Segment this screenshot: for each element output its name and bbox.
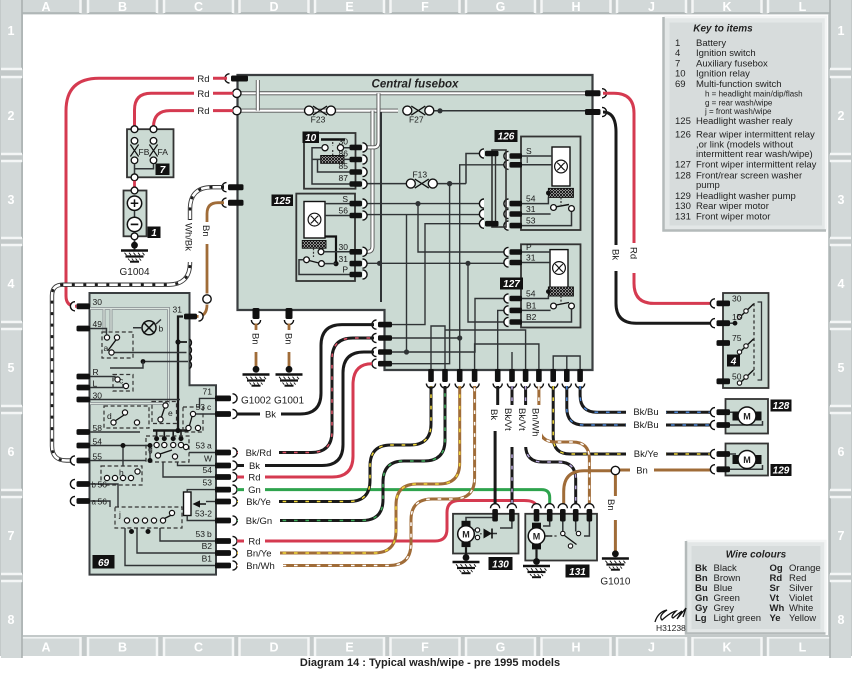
svg-text:j = front wash/wipe: j = front wash/wipe <box>704 107 772 116</box>
svg-text:J: J <box>648 0 655 14</box>
relay127 terminal B2 <box>510 319 523 325</box>
fusebox ext terminal W <box>378 349 392 355</box>
wire battery to ground <box>134 240 136 250</box>
relay10 terminal 30 <box>350 145 363 151</box>
wire Rd to ignition switch <box>603 93 712 303</box>
dashed box e <box>152 402 177 424</box>
label plate 129 <box>771 464 792 476</box>
wire lamp link <box>133 320 161 328</box>
switch69 terminal 55 <box>77 458 91 464</box>
svg-text:50: 50 <box>732 372 742 382</box>
svg-text:Rd: Rd <box>248 473 260 484</box>
switch69 terminal R <box>77 374 91 380</box>
svg-text:I: I <box>526 155 528 165</box>
svg-text:53: 53 <box>196 529 206 539</box>
ground G1010 <box>602 559 629 570</box>
svg-text:53-2: 53-2 <box>195 509 212 519</box>
junction W net <box>404 349 409 354</box>
svg-text:D: D <box>269 0 278 14</box>
wire Bk/Vt to motor 130 <box>511 386 514 505</box>
svg-text:S: S <box>342 194 348 204</box>
svg-text:31: 31 <box>339 254 349 264</box>
svg-text:F: F <box>421 641 429 655</box>
fusebox right terminal Bk out <box>585 109 601 115</box>
svg-text:Bn: Bn <box>636 466 648 477</box>
svg-text:56: 56 <box>339 206 349 216</box>
svg-text:4: 4 <box>730 356 737 367</box>
fusebox ext terminal 53c <box>378 322 392 328</box>
svg-text:Bk/Bu: Bk/Bu <box>633 407 658 418</box>
ignition terminal 75 <box>717 340 731 346</box>
junction 125S net <box>415 201 420 206</box>
internal connection wires <box>90 329 216 566</box>
svg-text:31: 31 <box>526 204 536 214</box>
arrow to resistor <box>199 503 206 505</box>
svg-text:J: J <box>648 641 655 655</box>
svg-text:3: 3 <box>838 193 845 207</box>
svg-text:Bk: Bk <box>610 249 621 260</box>
svg-text:7: 7 <box>838 529 845 543</box>
svg-text:K: K <box>722 641 731 655</box>
svg-text:86: 86 <box>339 149 349 159</box>
svg-text:b: b <box>92 481 97 490</box>
ignition terminal 50 <box>717 378 731 384</box>
svg-text:h = headlight main/dip/flash: h = headlight main/dip/flash <box>705 90 803 99</box>
svg-text:1: 1 <box>151 228 157 239</box>
motor131 terminals <box>534 509 540 522</box>
junction F13 out <box>447 181 452 186</box>
dashed box j <box>115 507 182 528</box>
fusebox right terminal Rd out <box>585 90 601 96</box>
relay 126 rear wiper intermittent relay <box>479 130 580 230</box>
svg-text:4: 4 <box>8 277 15 291</box>
relay125 terminal S <box>350 201 363 207</box>
dashed box a <box>102 332 133 358</box>
label plate 69 <box>93 555 115 569</box>
svg-text:b: b <box>159 324 164 334</box>
ignition switch contacts <box>753 303 755 377</box>
svg-text:a: a <box>92 498 97 507</box>
relay10 terminal 87 <box>350 181 363 187</box>
wire internal white bus Rd feed <box>236 91 586 95</box>
svg-text:Bn: Bn <box>605 499 616 511</box>
svg-text:125: 125 <box>274 196 291 207</box>
fusebox ground terminal G1002 <box>253 308 260 319</box>
svg-text:FB: FB <box>139 147 150 157</box>
svg-text:F: F <box>421 0 429 14</box>
svg-text:pump: pump <box>696 180 720 191</box>
wire Bn to switch 31 <box>197 203 224 317</box>
switch69 terminal b56 <box>77 481 91 487</box>
fuse FA <box>150 138 157 145</box>
relay125 terminal 31 <box>350 261 363 267</box>
wire Bn/Ye B2 to fusebox <box>237 386 460 553</box>
svg-text:intermittent rear wash/wipe): intermittent rear wash/wipe) <box>696 149 813 160</box>
motor130 terminals <box>492 509 498 522</box>
svg-text:7: 7 <box>160 165 166 176</box>
svg-text:G: G <box>496 641 506 655</box>
svg-text:A: A <box>41 641 50 655</box>
junction on 31 bus left <box>377 261 382 266</box>
svg-text:Bn: Bn <box>200 225 211 237</box>
svg-text:M: M <box>533 531 541 541</box>
svg-text:H: H <box>571 641 580 655</box>
ground G1001 <box>276 375 303 386</box>
svg-text:87: 87 <box>339 173 349 183</box>
link bus bar <box>492 150 506 227</box>
label Bk/Bu 2 <box>626 419 666 431</box>
dashed box g <box>146 436 189 462</box>
wire Bk130 net <box>498 310 508 372</box>
svg-text:69: 69 <box>675 79 686 90</box>
svg-text:130: 130 <box>492 559 509 570</box>
switch69 terminal 53c <box>215 411 231 417</box>
dashed box f <box>183 407 203 432</box>
svg-text:W: W <box>204 454 212 464</box>
junction 53a net <box>457 335 462 340</box>
svg-text:Front wiper intermittent relay: Front wiper intermittent relay <box>696 159 817 170</box>
svg-text:FA: FA <box>158 147 169 157</box>
wire 31 internal drop <box>178 317 183 431</box>
svg-text:54: 54 <box>526 289 536 299</box>
svg-text:Bn: Bn <box>283 333 294 345</box>
label plate 131 <box>566 565 590 578</box>
svg-text:B2: B2 <box>202 541 213 551</box>
svg-text:F13: F13 <box>412 170 427 180</box>
label Bn <box>201 222 213 244</box>
label Rd vertical <box>628 243 640 273</box>
svg-text:Bk: Bk <box>249 461 260 472</box>
svg-text:30: 30 <box>93 390 103 400</box>
relay127 terminal P <box>510 249 523 255</box>
wire Bn to G1001 <box>288 324 291 368</box>
switch69 terminal 53a <box>215 450 231 456</box>
svg-text:H: H <box>571 0 580 14</box>
fusebox bottom terminals <box>426 369 584 388</box>
switch69 terminal 54R <box>215 474 231 480</box>
svg-text:128: 128 <box>773 401 790 412</box>
svg-text:6: 6 <box>838 445 845 459</box>
wire Rd54 net <box>392 184 450 364</box>
ignition switch 4 <box>723 293 769 388</box>
svg-text:K: K <box>722 0 731 14</box>
label plate 7 <box>156 164 170 176</box>
svg-text:Bn/Wh: Bn/Wh <box>246 561 275 572</box>
svg-text:E: E <box>345 641 353 655</box>
svg-text:M: M <box>462 529 470 539</box>
signature mark <box>655 608 686 633</box>
switch69 terminal 54L <box>77 443 91 449</box>
svg-text:Bk/Gn: Bk/Gn <box>246 516 272 527</box>
ground G1004 <box>121 251 148 262</box>
wire thick dark F27 drop <box>380 112 382 302</box>
svg-text:53: 53 <box>196 441 206 451</box>
switch69 terminal 53-2 <box>215 518 231 524</box>
label Rd 3 <box>194 105 213 116</box>
wire lamp feed lines <box>114 353 188 362</box>
svg-text:31: 31 <box>173 305 183 315</box>
wire white branch to relay10-30 <box>366 93 379 147</box>
svg-text:D: D <box>269 641 278 655</box>
svg-text:L: L <box>93 378 98 388</box>
switch69 terminal 49 <box>77 326 91 332</box>
label plate 1 <box>148 227 161 239</box>
svg-text:Bk/Vt: Bk/Vt <box>502 408 513 431</box>
wire 53c net <box>392 224 483 325</box>
svg-text:Rd: Rd <box>628 247 639 259</box>
svg-text:30: 30 <box>339 242 349 252</box>
svg-text:Headlight washer realy: Headlight washer realy <box>696 116 793 127</box>
svg-text:G1001: G1001 <box>274 396 304 407</box>
dashed box c <box>113 375 133 392</box>
wire Bk/Ye wash to fusebox <box>237 386 431 502</box>
svg-text:Key to items: Key to items <box>693 24 753 35</box>
fusebox ground terminal G1001 <box>286 308 293 319</box>
wire Bk/Vt to motor 131 <box>526 386 576 505</box>
relay10 terminal 85 <box>350 169 363 175</box>
svg-text:Bn/Ye: Bn/Ye <box>246 549 271 560</box>
svg-text:71: 71 <box>203 386 213 396</box>
svg-text:5: 5 <box>8 361 15 375</box>
node on box7 top FA <box>150 126 157 133</box>
fusebox left terminal Wh/Bk <box>228 184 244 190</box>
svg-text:B1: B1 <box>202 554 213 564</box>
fusebox ext terminal 53a <box>378 335 392 341</box>
fuse F27 <box>427 110 587 112</box>
wire Bn/Wh to motor 131 <box>539 386 590 505</box>
fusebox top-left terminal (Rd battery feed) <box>231 76 248 82</box>
wire Bk/Gn 53-2 to fusebox <box>237 386 445 521</box>
rear wiper motor 130 <box>453 514 519 554</box>
svg-text:30: 30 <box>732 294 742 304</box>
svg-text:Ye: Ye <box>770 613 781 624</box>
svg-text:Wire colours: Wire colours <box>726 550 787 561</box>
svg-text:Bk/Ye: Bk/Ye <box>634 449 658 460</box>
relay125 terminal 56 <box>350 213 363 219</box>
fusebox ext terminal 54 <box>378 361 392 367</box>
battery 1 <box>124 191 147 237</box>
svg-text:Bn/Wh: Bn/Wh <box>530 408 541 437</box>
svg-text:R: R <box>93 367 99 377</box>
svg-text:131: 131 <box>675 211 691 222</box>
label Bk vertical <box>610 245 622 271</box>
fuse F23 <box>305 106 336 115</box>
svg-text:58: 58 <box>93 423 103 433</box>
switch69 terminal 53 <box>215 487 231 493</box>
svg-text:5: 5 <box>838 361 845 375</box>
relay10 terminal 86 <box>350 157 363 163</box>
fusebox edge node Rd3 <box>233 106 241 114</box>
svg-text:G1004: G1004 <box>119 267 149 278</box>
solenoid scallops on edge <box>190 339 192 369</box>
label plate 130 <box>489 557 513 570</box>
wire 53a net <box>392 165 508 338</box>
svg-text:1: 1 <box>8 24 15 38</box>
dashed box h <box>101 466 142 485</box>
wire 31 bus <box>364 263 508 322</box>
switch 69 body <box>90 293 217 575</box>
switch69 terminal 30a <box>77 303 91 309</box>
svg-text:31: 31 <box>526 253 536 263</box>
svg-text:Rd: Rd <box>197 106 209 117</box>
node Bn junction <box>611 466 619 474</box>
wire Gn 53 to wiper motor 131 <box>237 490 550 505</box>
diode <box>484 529 493 539</box>
svg-text:127: 127 <box>503 279 520 290</box>
wire Bk/Ye to 129 <box>553 386 712 454</box>
wire Bn to 129 <box>615 469 712 472</box>
svg-text:Bk/Rd: Bk/Rd <box>246 448 272 459</box>
svg-text:131: 131 <box>569 567 586 578</box>
internal mesh wires <box>364 165 581 372</box>
wire contact feed bar <box>153 429 189 431</box>
relay126 terminal 53 <box>510 223 523 229</box>
switch69 terminal wash <box>215 499 231 505</box>
node Bn junction circle <box>203 295 211 303</box>
svg-text:P: P <box>342 265 348 275</box>
fuse F13 <box>364 154 484 184</box>
wire 127P net <box>418 204 508 252</box>
fusebox edge node Rd2 <box>233 89 241 97</box>
wire white from top terminal to F23 feed <box>256 80 260 111</box>
label Rd 2 <box>194 88 213 99</box>
relay127 terminal 31 <box>510 260 523 266</box>
front wiper motor 131 <box>525 514 597 561</box>
svg-text:Bk/Vt: Bk/Vt <box>516 408 527 431</box>
relay126 terminal 31 <box>510 211 523 217</box>
svg-text:Wh/Bk: Wh/Bk <box>183 223 194 251</box>
wire Bk/Bu upper <box>580 386 712 412</box>
svg-text:4: 4 <box>838 277 845 291</box>
svg-text:e: e <box>168 408 173 418</box>
svg-text:53: 53 <box>526 216 536 226</box>
contact row g <box>157 431 181 438</box>
ignition terminal 15 <box>717 320 731 326</box>
svg-text:Diagram 14 : Typical wash/wipe: Diagram 14 : Typical wash/wipe - pre 199… <box>300 657 560 669</box>
svg-text:C: C <box>194 0 203 14</box>
svg-text:125: 125 <box>675 116 691 127</box>
fusebox left terminal Bn <box>228 200 244 206</box>
label plate 128 <box>771 400 792 412</box>
label plate 4 <box>727 355 740 367</box>
svg-text:B: B <box>118 641 127 655</box>
svg-text:69: 69 <box>98 558 110 569</box>
resistor <box>184 492 192 516</box>
node on box7 bottom <box>131 174 138 181</box>
svg-text:56: 56 <box>98 480 108 490</box>
wire white to F23 <box>236 109 398 113</box>
wire bottom terminal risers <box>431 326 580 372</box>
switch69 terminal 53b <box>215 538 231 544</box>
svg-text:L: L <box>799 0 807 14</box>
svg-text:a: a <box>207 441 212 451</box>
svg-text:56: 56 <box>98 497 108 507</box>
svg-text:54: 54 <box>93 436 103 446</box>
lamp b <box>142 321 156 335</box>
relay 127 front wiper intermittent relay <box>500 242 581 328</box>
wire Bn/Wh B1 to fusebox <box>237 386 475 566</box>
svg-text:Bk/Bu: Bk/Bu <box>633 420 658 431</box>
wire Rd battery feed 3 <box>154 111 234 127</box>
relay 10 ignition relay <box>303 132 368 189</box>
svg-text:127: 127 <box>675 159 691 170</box>
label Rd 1 <box>194 73 213 84</box>
svg-text:B1: B1 <box>526 300 537 310</box>
svg-text:75: 75 <box>732 333 742 343</box>
label Bk vertical <box>489 405 501 431</box>
motor130 ground <box>465 547 467 556</box>
svg-text:Rd: Rd <box>248 537 260 548</box>
label Bk <box>260 408 281 420</box>
switch69 terminal 71 <box>215 396 231 402</box>
ignition terminal 30 <box>717 301 731 307</box>
fuse FB <box>131 138 138 145</box>
svg-text:15: 15 <box>732 312 742 322</box>
svg-text:P: P <box>526 242 532 252</box>
svg-text:2: 2 <box>838 109 845 123</box>
washer pump 128 <box>726 399 769 434</box>
wire Bk to ignition switch <box>603 112 712 323</box>
fusebox body <box>238 75 593 370</box>
switch69 terminal B1 <box>215 563 231 569</box>
wire 125S net <box>364 203 483 205</box>
svg-text:F27: F27 <box>409 115 424 125</box>
relay125 terminal P <box>350 272 363 278</box>
svg-text:B2: B2 <box>526 312 537 322</box>
label Bk/Bu 1 <box>626 406 666 418</box>
switch69 terminal B2 <box>215 550 231 556</box>
switch69 terminal 58 <box>77 429 91 435</box>
svg-text:G1010: G1010 <box>600 577 630 588</box>
svg-text:L: L <box>799 641 807 655</box>
svg-text:B: B <box>118 0 127 14</box>
svg-text:2: 2 <box>8 109 15 123</box>
wire Rd battery feed 2 <box>135 93 234 126</box>
svg-text:Rd: Rd <box>197 74 209 85</box>
label Wh/Bk <box>184 220 196 262</box>
svg-text:Multi-function switch: Multi-function switch <box>696 79 782 90</box>
relay127 terminal B1 <box>510 308 523 314</box>
svg-text:G1002: G1002 <box>241 396 271 407</box>
svg-text:G: G <box>496 0 506 14</box>
svg-text:b: b <box>207 529 212 539</box>
svg-text:Yellow: Yellow <box>789 613 816 624</box>
svg-text:C: C <box>194 641 203 655</box>
dashed box d <box>104 406 149 428</box>
junction on 31 bus right <box>465 261 470 266</box>
svg-text:49: 49 <box>93 319 103 329</box>
svg-text:Bk/Ye: Bk/Ye <box>246 497 270 508</box>
svg-text:128: 128 <box>675 171 691 182</box>
wire Bn to G1002 <box>255 324 258 368</box>
svg-text:Gn: Gn <box>248 485 261 496</box>
wire Wh/Bk battery feed <box>52 187 224 460</box>
relay126 terminal S <box>510 153 523 159</box>
svg-text:Bk: Bk <box>488 409 499 420</box>
grey loop bus <box>90 309 169 404</box>
svg-text:10: 10 <box>305 133 317 144</box>
switch69 terminal a56 <box>77 498 91 504</box>
wire Bk 53c to fusebox <box>237 325 374 414</box>
wire red battery link <box>133 181 136 188</box>
wire Bn junction to G1010 <box>614 475 617 552</box>
auxiliary fusebox 7 <box>127 129 174 177</box>
node on box7 top FB <box>131 126 138 133</box>
switch69 terminal W <box>215 463 231 469</box>
svg-text:54: 54 <box>526 194 536 204</box>
svg-text:129: 129 <box>773 466 790 477</box>
wire Rd 53b to wiper motor 131 <box>237 501 536 542</box>
